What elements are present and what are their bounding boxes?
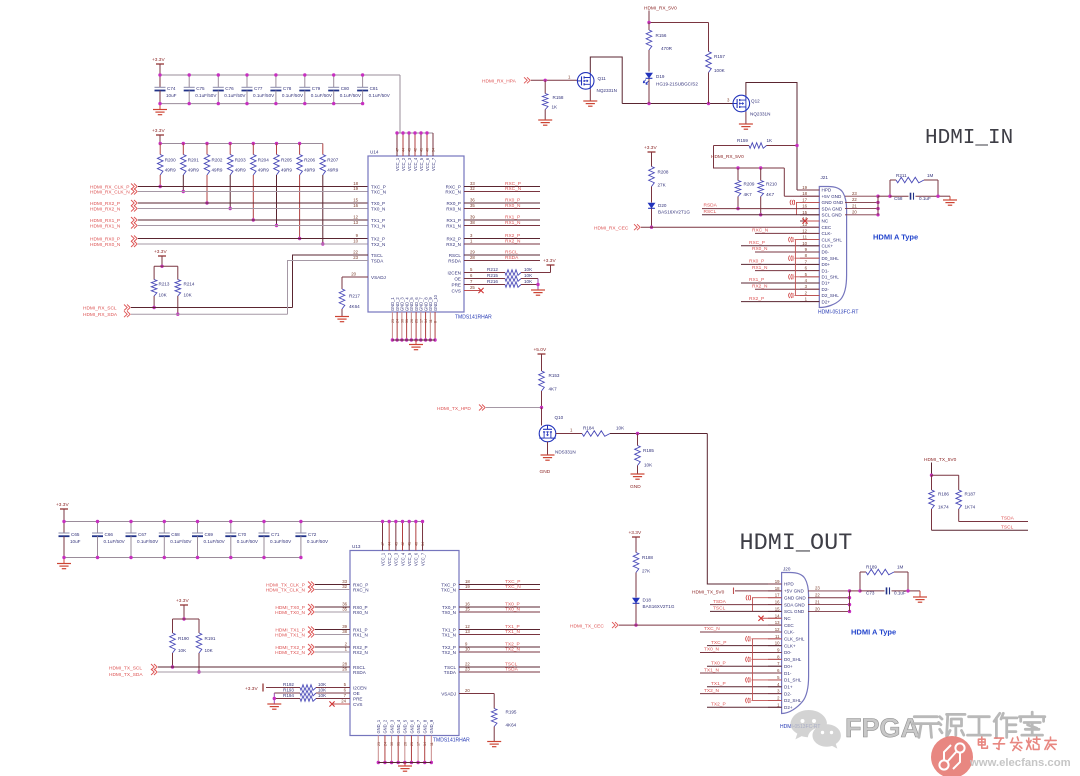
svg-text:TX1_N: TX1_N bbox=[704, 667, 719, 673]
diode D18 BAS16XV2T1G bbox=[633, 598, 675, 627]
svg-text:TXC_P: TXC_P bbox=[711, 640, 726, 646]
svg-text:R158: R158 bbox=[553, 95, 564, 100]
svg-text:TX0_P: TX0_P bbox=[371, 201, 385, 206]
svg-text:TSCL: TSCL bbox=[1001, 524, 1014, 530]
wire resistor bank bus bbox=[160, 143, 323, 145]
svg-text:GND: GND bbox=[540, 469, 551, 475]
svg-text:J20: J20 bbox=[783, 567, 791, 572]
net TXC_P to J20 pin10 bbox=[707, 640, 782, 646]
svg-text:+3.3V: +3.3V bbox=[176, 598, 189, 604]
svg-text:RX1_N: RX1_N bbox=[353, 632, 368, 637]
shield mark J21 pin11 bbox=[789, 237, 820, 242]
shield mark J21 pin8 bbox=[789, 256, 820, 261]
net HDMI_TX_CLK_P to U13 bbox=[266, 579, 368, 588]
svg-text:R214: R214 bbox=[184, 282, 195, 287]
svg-text:4K7: 4K7 bbox=[766, 192, 775, 197]
U13 pin OE with resistor R193 10K bbox=[274, 687, 359, 696]
svg-text:12: 12 bbox=[775, 627, 780, 632]
svg-text:D0_SHL: D0_SHL bbox=[822, 256, 840, 261]
svg-text:SCL GND: SCL GND bbox=[784, 609, 805, 614]
svg-text:41: 41 bbox=[420, 148, 424, 152]
svg-text:GND_4: GND_4 bbox=[396, 719, 401, 733]
svg-text:10K: 10K bbox=[318, 687, 327, 692]
resistor R206 49R9 bbox=[297, 142, 316, 240]
net RSDA to J21 bbox=[702, 203, 819, 209]
svg-text:HDMI_RX_CEC: HDMI_RX_CEC bbox=[594, 225, 629, 231]
svg-text:D2_SHL: D2_SHL bbox=[822, 293, 840, 298]
watermark elecfans text bbox=[978, 737, 1056, 751]
shield mark J20 pin5 bbox=[746, 677, 782, 682]
net label HDMI_RX_5V0 (connector side) bbox=[711, 146, 784, 170]
svg-text:49R9: 49R9 bbox=[327, 168, 338, 173]
capacitor C79 bbox=[299, 73, 333, 105]
svg-text:21: 21 bbox=[815, 599, 820, 604]
svg-text:C81: C81 bbox=[370, 86, 379, 91]
svg-text:32: 32 bbox=[470, 186, 475, 191]
capacitor C72 bbox=[295, 520, 329, 559]
wire Q11 drain loop bbox=[590, 57, 622, 104]
svg-text:SCL GND: SCL GND bbox=[822, 213, 843, 218]
svg-text:HDMI_RX0_P: HDMI_RX0_P bbox=[90, 237, 120, 243]
ground (U13 control pulldown) bbox=[267, 703, 281, 705]
svg-text:49R9: 49R9 bbox=[304, 168, 315, 173]
capacitor C80 bbox=[328, 73, 362, 105]
svg-text:D1+: D1+ bbox=[784, 684, 793, 689]
svg-text:FPGA: FPGA bbox=[845, 713, 920, 743]
svg-text:C73: C73 bbox=[866, 590, 875, 595]
svg-text:R156: R156 bbox=[656, 33, 667, 38]
svg-text:TX2_N: TX2_N bbox=[371, 242, 385, 247]
power net HDMI_RX_5V0 (LED feed) bbox=[644, 6, 709, 25]
svg-text:RX1_P: RX1_P bbox=[749, 277, 764, 283]
svg-text:25: 25 bbox=[470, 285, 475, 290]
net RX0_P to J21 pin7 bbox=[741, 259, 819, 265]
svg-text:10uF: 10uF bbox=[70, 539, 81, 544]
svg-text:R195: R195 bbox=[506, 710, 517, 715]
svg-text:10K: 10K bbox=[318, 682, 327, 687]
svg-text:470R: 470R bbox=[661, 46, 673, 51]
svg-text:VCC_5: VCC_5 bbox=[419, 157, 424, 171]
U13 pin I2CEN with resistor R192 10K bbox=[266, 682, 367, 691]
svg-text:GND_6: GND_6 bbox=[409, 719, 414, 733]
svg-text:38: 38 bbox=[342, 629, 347, 634]
svg-text:VCC_1: VCC_1 bbox=[395, 157, 400, 171]
U14 pin 25 CVS no-connect bbox=[452, 285, 484, 293]
net HDMI_TX_CLK_N to U13 bbox=[266, 584, 369, 593]
wire J20 shield bus bbox=[752, 639, 754, 701]
svg-text:TXC_N: TXC_N bbox=[441, 587, 456, 592]
svg-text:GND_1: GND_1 bbox=[376, 719, 381, 733]
net HDMI_RX0_P bbox=[90, 233, 368, 242]
svg-text:TX2_P: TX2_P bbox=[711, 702, 726, 708]
U14 output net RX2_P bbox=[446, 233, 540, 241]
net HDMI_TX0_N to U13 bbox=[275, 607, 368, 616]
svg-text:www.elecfans.com: www.elecfans.com bbox=[969, 757, 1071, 769]
svg-text:GND_9: GND_9 bbox=[429, 719, 434, 733]
U13 output net TXC_N bbox=[441, 584, 540, 592]
svg-text:+5V GND: +5V GND bbox=[784, 589, 804, 594]
svg-text:10uF: 10uF bbox=[166, 93, 177, 98]
svg-text:TSCL: TSCL bbox=[371, 253, 383, 258]
wire bottom-section cap bus bbox=[64, 521, 423, 523]
svg-text:0.1uF/50V: 0.1uF/50V bbox=[170, 539, 192, 544]
svg-text:30: 30 bbox=[390, 742, 394, 746]
resistor R214 10K bbox=[175, 280, 195, 316]
svg-text:10K: 10K bbox=[205, 648, 214, 653]
svg-text:TX0_N: TX0_N bbox=[704, 647, 719, 653]
svg-text:RX0_N: RX0_N bbox=[446, 206, 461, 211]
svg-text:35: 35 bbox=[470, 203, 475, 208]
net RXC_N to J21 pin12 bbox=[752, 228, 819, 234]
svg-text:R210: R210 bbox=[766, 182, 777, 187]
svg-text:+5.0V: +5.0V bbox=[534, 347, 547, 353]
svg-text:14: 14 bbox=[424, 319, 428, 323]
svg-text:R202: R202 bbox=[212, 158, 223, 163]
svg-text:R192: R192 bbox=[283, 682, 294, 687]
svg-text:R208: R208 bbox=[658, 170, 669, 175]
svg-text:C68: C68 bbox=[171, 532, 180, 537]
svg-text:10K: 10K bbox=[159, 293, 168, 298]
ground (U14 control pulldown) bbox=[531, 289, 545, 291]
svg-text:TXC_N: TXC_N bbox=[371, 189, 386, 194]
svg-text:R206: R206 bbox=[304, 158, 315, 163]
svg-text:TSDA: TSDA bbox=[1001, 516, 1015, 522]
svg-text:0.1uF/50V: 0.1uF/50V bbox=[340, 93, 362, 98]
J21 pin14 no-connect bbox=[802, 218, 819, 223]
svg-text:HDMI_RX_HPA: HDMI_RX_HPA bbox=[482, 78, 517, 84]
svg-text:49R9: 49R9 bbox=[235, 168, 246, 173]
svg-text:RX0_N: RX0_N bbox=[353, 610, 368, 615]
svg-text:40: 40 bbox=[426, 148, 430, 152]
net RSCL to J21 bbox=[702, 209, 819, 215]
svg-text:49R9: 49R9 bbox=[258, 168, 269, 173]
svg-text:10: 10 bbox=[465, 647, 470, 652]
U14 output net RX0_N bbox=[446, 203, 540, 211]
resistor R211 1M bbox=[890, 173, 938, 183]
svg-text:R193: R193 bbox=[283, 687, 294, 692]
svg-text:HDMI_TX_CLK_N: HDMI_TX_CLK_N bbox=[266, 588, 306, 594]
svg-text:R201: R201 bbox=[188, 158, 199, 163]
wire Q12 source to ground bbox=[745, 112, 747, 124]
svg-text:C72: C72 bbox=[308, 532, 317, 537]
svg-text:10K: 10K bbox=[524, 279, 533, 284]
svg-text:C75: C75 bbox=[196, 86, 205, 91]
svg-text:23: 23 bbox=[852, 191, 857, 196]
svg-text:HDMI A Type: HDMI A Type bbox=[873, 233, 918, 242]
svg-text:C77: C77 bbox=[254, 86, 263, 91]
svg-text:RSDA: RSDA bbox=[448, 258, 462, 263]
svg-text:47: 47 bbox=[381, 542, 385, 546]
svg-text:VSADJ: VSADJ bbox=[371, 275, 386, 280]
svg-text:CLK+: CLK+ bbox=[784, 643, 796, 648]
svg-text:RX0_N: RX0_N bbox=[752, 246, 768, 252]
svg-text:RX2_N: RX2_N bbox=[505, 238, 521, 244]
svg-text:HDMI_OUT: HDMI_OUT bbox=[740, 530, 853, 557]
svg-text:0.1uF/50V: 0.1uF/50V bbox=[104, 539, 126, 544]
svg-text:+3.3V: +3.3V bbox=[644, 145, 657, 151]
svg-text:RSCL: RSCL bbox=[505, 249, 518, 255]
svg-text:49R9: 49R9 bbox=[188, 168, 199, 173]
J20 ground tab pins 23-20 bbox=[808, 586, 851, 613]
svg-text:39: 39 bbox=[470, 215, 475, 220]
op-amp U14 TMDS141RHAR (TMDS buffer IC) bbox=[368, 150, 492, 321]
svg-text:+3.3V: +3.3V bbox=[543, 258, 556, 264]
wire pullup top bus bbox=[154, 265, 178, 267]
svg-text:TX1_N: TX1_N bbox=[505, 629, 520, 635]
svg-text:10: 10 bbox=[353, 239, 358, 244]
svg-text:0.1uF/50V: 0.1uF/50V bbox=[307, 539, 329, 544]
shield mark J20 pin17 bbox=[746, 595, 782, 611]
svg-text:VCC_4: VCC_4 bbox=[413, 157, 418, 171]
net HDMI_RX0_N bbox=[90, 239, 368, 248]
svg-text:U14: U14 bbox=[370, 150, 379, 155]
svg-text:C80: C80 bbox=[341, 86, 350, 91]
svg-text:RX2_P: RX2_P bbox=[749, 296, 764, 302]
net HDMI_TX_HPD bbox=[437, 405, 543, 413]
svg-text:10K: 10K bbox=[644, 463, 653, 468]
svg-text:R213: R213 bbox=[159, 282, 170, 287]
svg-text:4K7: 4K7 bbox=[549, 387, 558, 392]
svg-text:TX0_P: TX0_P bbox=[711, 660, 726, 666]
capacitor C75 bbox=[184, 73, 218, 105]
svg-text:RX2_P: RX2_P bbox=[446, 236, 461, 241]
resistor R207 49R9 bbox=[320, 144, 339, 246]
net HDMI_RX_SCL bbox=[83, 305, 293, 312]
svg-text:4K7: 4K7 bbox=[744, 192, 753, 197]
U14 output net RXC_N bbox=[445, 186, 540, 194]
svg-text:15: 15 bbox=[802, 210, 807, 215]
svg-text:HDMI_TX2_N: HDMI_TX2_N bbox=[275, 650, 305, 656]
svg-text:VCC_1: VCC_1 bbox=[380, 552, 385, 566]
svg-text:VCC_3: VCC_3 bbox=[407, 157, 412, 171]
wire OE/PRE to ground bbox=[536, 279, 539, 291]
svg-text:NC: NC bbox=[822, 219, 829, 224]
resistor R187 1K74 bbox=[956, 475, 976, 521]
net HDMI_TX0_P to U13 bbox=[275, 602, 367, 611]
svg-text:D0-: D0- bbox=[784, 650, 792, 655]
svg-text:21: 21 bbox=[410, 742, 414, 746]
U13 output net TX2_N bbox=[442, 646, 540, 654]
svg-text:TSDA: TSDA bbox=[505, 666, 519, 672]
svg-text:10K: 10K bbox=[524, 267, 533, 272]
net TX1_N to J20 pin6 bbox=[700, 667, 782, 673]
svg-text:RX2_N: RX2_N bbox=[752, 283, 768, 289]
capacitor C71 bbox=[259, 520, 293, 559]
U14 pin OE with resistor R215 10K bbox=[454, 273, 538, 281]
svg-text:27K: 27K bbox=[658, 183, 667, 188]
svg-text:C76: C76 bbox=[225, 86, 234, 91]
resistor R190 10K bbox=[170, 633, 190, 669]
svg-text:Q12: Q12 bbox=[751, 99, 760, 104]
U13 output net TX0_N bbox=[442, 606, 540, 614]
svg-text:30: 30 bbox=[400, 319, 404, 323]
net HDMI_TX2_N to U13 bbox=[275, 647, 368, 656]
svg-text:RX2_P: RX2_P bbox=[505, 233, 520, 239]
svg-text:PRE: PRE bbox=[452, 282, 461, 287]
svg-text:18: 18 bbox=[802, 191, 807, 196]
U13 GND pins to ground bbox=[376, 719, 434, 765]
svg-text:RX0_P: RX0_P bbox=[505, 197, 520, 203]
net RX1_N to J21 pin6 bbox=[752, 265, 819, 271]
svg-text:GND_5: GND_5 bbox=[403, 719, 408, 733]
wire J21 +5V input bbox=[784, 195, 819, 197]
svg-text:R184: R184 bbox=[583, 426, 594, 431]
svg-text:23: 23 bbox=[815, 586, 820, 591]
transistor Q11 NQ2331N bbox=[577, 73, 617, 93]
U14 output net RXC_P bbox=[446, 181, 540, 189]
svg-text:RX2_N: RX2_N bbox=[353, 650, 368, 655]
U13 output net TX2_P bbox=[442, 641, 540, 649]
svg-text:10K: 10K bbox=[178, 648, 187, 653]
svg-text:HDMI_RX_SCL: HDMI_RX_SCL bbox=[83, 306, 117, 312]
svg-text:11: 11 bbox=[429, 319, 433, 323]
wire to shell RC (J20) bbox=[850, 572, 862, 593]
svg-text:+5V GND: +5V GND bbox=[822, 194, 842, 199]
net HDMI_RX_SDA bbox=[83, 311, 288, 318]
net RXC_P to J21 pin10 bbox=[741, 240, 819, 246]
svg-text:CVS: CVS bbox=[353, 702, 362, 707]
resistor R153 4K7 bbox=[539, 354, 560, 408]
svg-text:12: 12 bbox=[353, 215, 358, 220]
wire bottom cap return bus bbox=[64, 557, 301, 559]
svg-text:TSDA: TSDA bbox=[713, 599, 727, 605]
svg-text:C69: C69 bbox=[205, 532, 214, 537]
wire top cap bus bbox=[160, 74, 400, 76]
svg-text:HDMI_TX_5V0: HDMI_TX_5V0 bbox=[692, 589, 725, 595]
svg-text:+3.3V: +3.3V bbox=[154, 249, 167, 255]
svg-text:1K74: 1K74 bbox=[965, 505, 976, 510]
svg-text:10K: 10K bbox=[616, 426, 625, 431]
resistor R208 27K bbox=[649, 152, 669, 203]
connector J20 HDMI A Type (HDMI_OUT) bbox=[780, 567, 820, 731]
svg-text:20: 20 bbox=[465, 688, 470, 693]
svg-text:HDMI_TX_5V0: HDMI_TX_5V0 bbox=[924, 457, 957, 463]
svg-text:U13: U13 bbox=[352, 544, 361, 549]
svg-text:32: 32 bbox=[342, 584, 347, 589]
svg-text:D1-: D1- bbox=[784, 671, 792, 676]
svg-text:10K: 10K bbox=[318, 693, 327, 698]
svg-text:0.1uF/50V: 0.1uF/50V bbox=[204, 539, 226, 544]
shield mark J20 pin2 bbox=[746, 698, 782, 703]
svg-text:RXC_P: RXC_P bbox=[749, 240, 765, 246]
wire +5V to J21 pin18 bbox=[783, 168, 785, 196]
U14 pin 22 TSCL stub bbox=[340, 250, 368, 255]
svg-text:+3.3V: +3.3V bbox=[152, 128, 165, 134]
ground (Q11) bbox=[583, 100, 597, 102]
svg-text:R200: R200 bbox=[165, 158, 176, 163]
U14 pin 20 VSADJ stub bbox=[342, 272, 368, 277]
net TSDA to J20 bbox=[710, 599, 782, 605]
svg-text:D2-: D2- bbox=[822, 287, 830, 292]
svg-text:R188: R188 bbox=[642, 555, 653, 560]
wire TSDA to SDA bbox=[288, 261, 341, 315]
wire TSCL to SCL bbox=[293, 255, 341, 308]
svg-text:BAS16XV2T1G: BAS16XV2T1G bbox=[643, 604, 675, 609]
svg-text:RX1_N: RX1_N bbox=[446, 223, 461, 228]
svg-text:1K74: 1K74 bbox=[938, 505, 949, 510]
svg-text:RX0_P: RX0_P bbox=[749, 259, 764, 265]
resistor R203 49R9 bbox=[227, 142, 246, 210]
resistor R201 49R9 bbox=[181, 142, 200, 193]
svg-text:C65: C65 bbox=[71, 532, 80, 537]
svg-text:CLK-: CLK- bbox=[822, 231, 833, 236]
svg-text:D1_SHL: D1_SHL bbox=[784, 678, 802, 683]
svg-text:D1+: D1+ bbox=[822, 281, 831, 286]
svg-text:D1-: D1- bbox=[822, 268, 830, 273]
svg-text:0.1uF/50V: 0.1uF/50V bbox=[195, 93, 217, 98]
svg-text:+3.3V: +3.3V bbox=[152, 57, 165, 63]
svg-text:14: 14 bbox=[775, 613, 780, 618]
resistor R185 10K bbox=[635, 434, 655, 474]
wire bottom cap bus bbox=[160, 103, 363, 105]
resistor R157 100K bbox=[706, 23, 726, 104]
svg-text:HDMI_TX_CEC: HDMI_TX_CEC bbox=[570, 623, 604, 629]
resistor R184 10K bbox=[556, 426, 708, 437]
svg-text:TMDS141RHAR: TMDS141RHAR bbox=[433, 738, 470, 744]
svg-text:TX1_N: TX1_N bbox=[442, 632, 456, 637]
svg-text:VCC_6: VCC_6 bbox=[414, 552, 419, 566]
svg-text:34: 34 bbox=[421, 542, 425, 546]
wire HPD to J20 bbox=[707, 434, 781, 585]
svg-text:10: 10 bbox=[802, 241, 807, 246]
wire Q12 drain to HPD pin bbox=[746, 83, 797, 191]
svg-text:11: 11 bbox=[803, 235, 808, 240]
U14 pin PRE with resistor R216 10K bbox=[452, 279, 538, 287]
svg-text:R185: R185 bbox=[643, 448, 654, 453]
svg-text:R203: R203 bbox=[235, 158, 246, 163]
U13 output net TX1_P bbox=[442, 624, 540, 632]
shield mark J20 pin11 bbox=[746, 636, 782, 641]
svg-text:RSDA: RSDA bbox=[353, 670, 367, 675]
svg-text:TX2_N: TX2_N bbox=[442, 650, 456, 655]
resistor R195 4K64 bbox=[491, 694, 517, 742]
svg-text:VCC_7: VCC_7 bbox=[431, 157, 436, 171]
shield mark J21 pin5 bbox=[789, 274, 820, 279]
watermark elecfans logo bbox=[931, 736, 973, 776]
net HDMI_RX_CLK_P bbox=[90, 181, 368, 190]
svg-text:HDMI_RX_5V0: HDMI_RX_5V0 bbox=[711, 154, 744, 160]
resistor R189 1M bbox=[860, 565, 908, 575]
svg-text:HDMI-0513FC-RT: HDMI-0513FC-RT bbox=[818, 310, 858, 316]
svg-text:CLK_SHL: CLK_SHL bbox=[784, 637, 805, 642]
capacitor C70 bbox=[225, 520, 259, 559]
capacitor C77 bbox=[242, 73, 276, 105]
svg-text:CLK-: CLK- bbox=[784, 630, 795, 635]
svg-text:0.1uF/50V: 0.1uF/50V bbox=[369, 93, 391, 98]
svg-text:0.1uF/50V: 0.1uF/50V bbox=[253, 93, 275, 98]
svg-text:1M: 1M bbox=[897, 565, 904, 570]
ground (cap bank C74) bbox=[159, 104, 161, 109]
svg-text:RX1_N: RX1_N bbox=[505, 220, 521, 226]
net TSDA stub bbox=[959, 516, 1028, 522]
power net HDMI_TX_5V0 (DDC pullups) bbox=[924, 457, 959, 477]
svg-text:26: 26 bbox=[403, 742, 407, 746]
net TX0_P to J20 pin7 bbox=[707, 660, 782, 666]
svg-text:0.1uF: 0.1uF bbox=[894, 590, 906, 595]
svg-text:23: 23 bbox=[391, 319, 395, 323]
svg-text:43: 43 bbox=[394, 542, 398, 546]
wire to shell RC bbox=[878, 180, 892, 198]
capacitor C81 bbox=[357, 73, 391, 105]
svg-text:RX2_N: RX2_N bbox=[446, 242, 461, 247]
net TX2_N to J20 pin3 bbox=[700, 688, 782, 694]
transistor Q12 NQ2331N bbox=[727, 95, 770, 116]
ground (J21 shell) bbox=[943, 199, 957, 201]
net HDMI_RX1_N bbox=[90, 220, 368, 229]
shield mark J20 pin8 bbox=[746, 657, 782, 662]
svg-text:R186: R186 bbox=[938, 492, 949, 497]
svg-text:R209: R209 bbox=[744, 182, 755, 187]
